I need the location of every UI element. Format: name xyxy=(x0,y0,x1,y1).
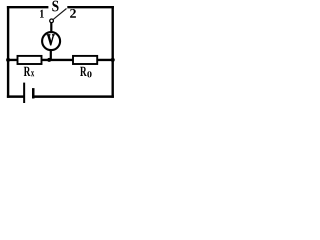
label Rx R xyxy=(24,67,31,76)
resistor R0 xyxy=(73,56,97,64)
label R0 R xyxy=(80,67,87,76)
switch S pivot xyxy=(50,19,54,23)
wire switch pivot to voltmeter xyxy=(50,23,52,33)
switch S lever xyxy=(53,9,66,20)
node right junction xyxy=(111,58,115,62)
label Rx x subscript xyxy=(31,71,34,76)
voltmeter U1 circle xyxy=(42,32,60,50)
wire voltmeter to middle row xyxy=(50,50,52,60)
wire bottom-left (corner to battery) xyxy=(7,95,24,98)
battery short plate xyxy=(32,88,35,98)
wire middle row xyxy=(8,59,113,61)
voltmeter label V xyxy=(47,35,54,46)
label 2 xyxy=(70,9,76,18)
node center junction xyxy=(47,58,51,62)
wire top-left (from left corner to switch contact 1) xyxy=(7,6,49,8)
wire bottom-right (battery to right corner) xyxy=(33,95,114,98)
resistor Rx xyxy=(18,56,42,64)
label R0 0 subscript xyxy=(87,71,91,77)
wire top-right (from switch contact 2 to right corner) xyxy=(67,6,114,8)
battery long plate xyxy=(23,83,25,103)
wire right side xyxy=(111,6,113,98)
wire left side xyxy=(7,6,9,98)
label S xyxy=(52,1,58,12)
label 1 xyxy=(40,10,44,18)
node left junction xyxy=(6,58,10,62)
